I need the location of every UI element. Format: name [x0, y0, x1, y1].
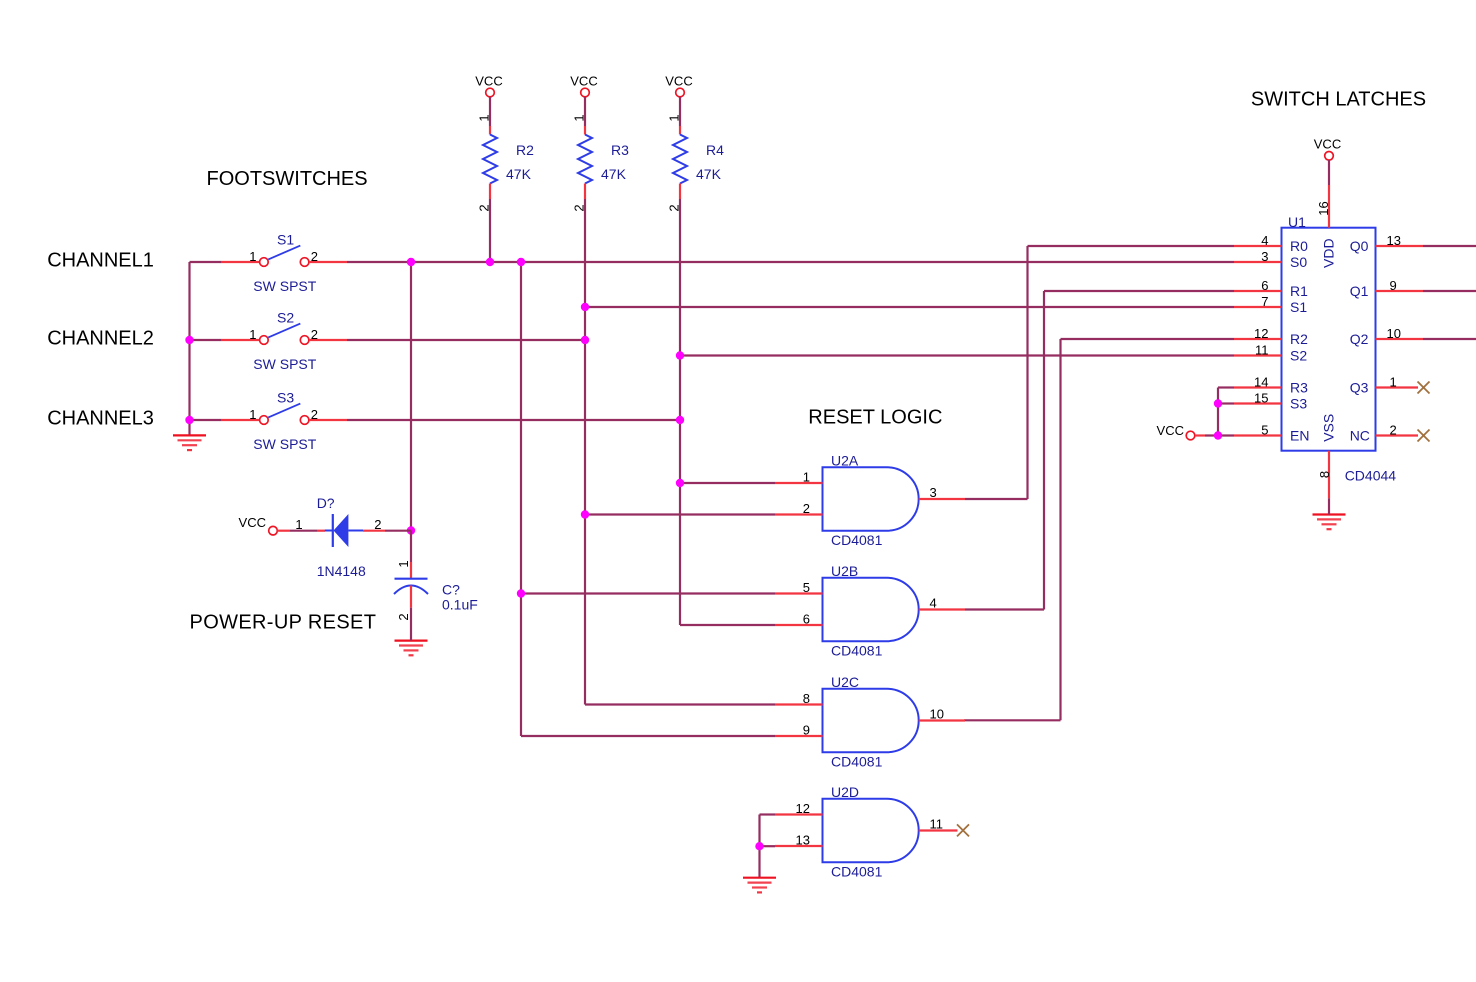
svg-text:1: 1 [572, 114, 587, 121]
wire diode anode [277, 530, 290, 532]
svg-text:47K: 47K [601, 166, 627, 182]
svg-text:9: 9 [803, 723, 810, 738]
wire to U2D pin12 [760, 813, 776, 815]
wire U2A out [965, 498, 1028, 500]
svg-text:10: 10 [1387, 326, 1401, 341]
svg-text:C?: C? [442, 582, 460, 598]
svg-text:0.1uF: 0.1uF [442, 597, 478, 613]
svg-text:1: 1 [249, 407, 256, 422]
wire U2C out column [1059, 339, 1061, 720]
wire EN row [1205, 434, 1234, 436]
wire channel3 bus [347, 419, 680, 421]
svg-text:1: 1 [803, 470, 810, 485]
wire Q0 out [1423, 245, 1476, 247]
svg-text:VDD: VDD [1321, 238, 1337, 268]
wire U2B out column [1043, 291, 1045, 610]
wire S2 row to U1 pin11 [680, 354, 1234, 356]
junction (1218,403.5) [1214, 399, 1222, 407]
svg-text:10: 10 [930, 707, 944, 722]
U1 pin 9 Q1 [1376, 290, 1424, 292]
wire U2D input tie [758, 815, 760, 878]
svg-text:R3: R3 [611, 142, 629, 158]
junction (680,483) [676, 479, 684, 487]
ground U1 pin8 [1313, 515, 1346, 530]
wire to U2B pin5 [521, 592, 775, 594]
U1 pin 7 S1 [1234, 306, 1282, 308]
svg-text:47K: 47K [506, 166, 532, 182]
svg-text:2: 2 [667, 204, 682, 211]
U1 pin 14 R3 [1234, 386, 1282, 388]
svg-text:R4: R4 [706, 142, 724, 158]
svg-text:1: 1 [249, 249, 256, 264]
junction (189.5,340) [185, 336, 193, 344]
svg-text:5: 5 [1261, 423, 1268, 438]
svg-text:15: 15 [1254, 391, 1268, 406]
wire to U2C pin8 [585, 703, 775, 705]
svg-text:R0: R0 [1290, 238, 1308, 254]
svg-text:Q1: Q1 [1350, 283, 1369, 299]
svg-text:U2A: U2A [831, 452, 859, 468]
svg-text:9: 9 [1390, 278, 1397, 293]
wire channel2 bus [347, 339, 585, 341]
svg-text:R2: R2 [516, 142, 534, 158]
and-gate U2A [823, 467, 919, 530]
junction (585,307) [581, 303, 589, 311]
wire U2C out [964, 719, 1061, 721]
svg-text:S3: S3 [1290, 396, 1307, 412]
svg-text:R3: R3 [1290, 380, 1308, 396]
svg-text:11: 11 [1255, 343, 1269, 358]
svg-text:14: 14 [1254, 375, 1268, 390]
wire channel3 left [190, 419, 222, 421]
no-connect Q3 [1418, 382, 1430, 394]
U1 pin 1 Q3 [1376, 386, 1419, 388]
wire diode cathode [363, 530, 385, 532]
and-gate U2C [823, 689, 919, 752]
svg-text:S1: S1 [277, 232, 294, 248]
svg-text:VCC: VCC [665, 74, 692, 89]
wire R2 bottom [489, 199, 491, 262]
svg-text:12: 12 [1254, 326, 1268, 341]
svg-text:2: 2 [311, 249, 318, 264]
svg-text:SW SPST: SW SPST [253, 278, 316, 294]
svg-text:CD4081: CD4081 [831, 754, 883, 770]
svg-text:SWITCH LATCHES: SWITCH LATCHES [1251, 89, 1426, 111]
wire R2 row to U1 pin12 [1061, 338, 1235, 340]
wire VCC tie column [1217, 388, 1219, 436]
svg-text:2: 2 [311, 327, 318, 342]
ground capacitor [395, 641, 428, 656]
svg-text:6: 6 [803, 612, 810, 627]
wire column x411 [410, 262, 412, 531]
svg-text:1N4148: 1N4148 [317, 563, 366, 579]
wire to U2B pin6 [680, 624, 775, 626]
svg-text:S2: S2 [277, 310, 294, 326]
wire channel1 left [190, 261, 222, 263]
svg-text:CHANNEL2: CHANNEL2 [47, 328, 154, 350]
wire S1 row to U1 pin7 [585, 306, 1234, 308]
svg-text:11: 11 [930, 817, 944, 832]
svg-text:SW SPST: SW SPST [253, 436, 316, 452]
svg-text:NC: NC [1350, 428, 1370, 444]
switch S2 [222, 339, 260, 341]
svg-text:2: 2 [374, 517, 381, 532]
svg-text:D?: D? [317, 495, 335, 511]
junction (585,514.5) [581, 510, 589, 518]
svg-text:VCC: VCC [570, 74, 597, 89]
and-gate U2B [823, 578, 919, 641]
wire S3 jog [1218, 402, 1234, 404]
svg-text:RESET LOGIC: RESET LOGIC [808, 407, 942, 429]
svg-text:2: 2 [311, 407, 318, 422]
wire R0 row to U1 pin4 [1028, 245, 1235, 247]
wire R3 jog [1218, 386, 1234, 388]
U1 pin 11 S2 [1234, 354, 1282, 356]
wire cap bottom [410, 586, 412, 608]
wire to U2A pin2 [585, 513, 775, 515]
svg-text:4: 4 [930, 596, 937, 611]
svg-text:R1: R1 [1290, 283, 1308, 299]
U1 pin 12 R2 [1234, 338, 1282, 340]
wire column x680 [679, 199, 681, 625]
junction (411,262) [407, 258, 415, 266]
wire left rail [188, 262, 190, 435]
svg-text:VCC: VCC [239, 515, 266, 530]
wire U2B out [965, 608, 1044, 610]
wire U2A out column [1026, 246, 1028, 499]
svg-text:S2: S2 [1290, 348, 1307, 364]
svg-text:1: 1 [249, 327, 256, 342]
svg-text:8: 8 [803, 691, 810, 706]
svg-text:S3: S3 [277, 390, 294, 406]
no-connect NC [1418, 430, 1430, 442]
svg-text:13: 13 [796, 833, 810, 848]
svg-text:3: 3 [1261, 249, 1268, 264]
U1 pin16 wire [1328, 160, 1330, 185]
svg-text:U1: U1 [1288, 214, 1306, 230]
svg-text:CHANNEL1: CHANNEL1 [47, 250, 154, 272]
junction (189.5,420) [185, 416, 193, 424]
wire channel2 left [190, 339, 222, 341]
svg-text:3: 3 [930, 485, 937, 500]
U1 pin 15 S3 [1234, 402, 1282, 404]
svg-text:Q2: Q2 [1350, 331, 1369, 347]
svg-text:U2D: U2D [831, 784, 859, 800]
U1 pin 10 Q2 [1376, 338, 1424, 340]
svg-text:8: 8 [1317, 471, 1332, 478]
wire to U2A pin1 [680, 482, 775, 484]
U1 pin 2 NC [1376, 434, 1419, 436]
junction (680,420) [676, 416, 684, 424]
U1 pin 4 R0 [1234, 245, 1282, 247]
svg-text:FOOTSWITCHES: FOOTSWITCHES [207, 168, 368, 190]
switch S3 [222, 419, 260, 421]
svg-text:CD4081: CD4081 [831, 643, 883, 659]
U1 pin 6 R1 [1234, 290, 1282, 292]
junction (585,340) [581, 336, 589, 344]
svg-text:7: 7 [1261, 294, 1268, 309]
junction (680,355.5) [676, 351, 684, 359]
svg-text:12: 12 [796, 801, 810, 816]
svg-text:1: 1 [396, 560, 411, 567]
svg-text:1: 1 [667, 114, 682, 121]
diode D1 symbol [332, 514, 334, 547]
wire cap top [410, 531, 412, 563]
svg-text:EN: EN [1290, 428, 1309, 444]
svg-text:S0: S0 [1290, 254, 1307, 270]
wire column x585 [584, 199, 586, 705]
svg-text:13: 13 [1387, 233, 1401, 248]
wire column x521 [520, 262, 522, 736]
U1 pin 3 S0 [1234, 261, 1282, 263]
wire R1 row to U1 pin6 [1044, 290, 1234, 292]
svg-text:CHANNEL3: CHANNEL3 [47, 407, 154, 429]
svg-text:2: 2 [803, 501, 810, 516]
svg-text:CD4044: CD4044 [1345, 468, 1397, 484]
svg-text:2: 2 [1390, 423, 1397, 438]
wire to U2D pin13 [760, 845, 776, 847]
svg-text:R2: R2 [1290, 331, 1308, 347]
svg-text:47K: 47K [696, 166, 722, 182]
svg-text:POWER-UP RESET: POWER-UP RESET [190, 612, 377, 634]
svg-text:VCC: VCC [475, 74, 502, 89]
svg-text:Q3: Q3 [1350, 380, 1369, 396]
capacitor C? symbol [395, 578, 428, 580]
svg-text:U2C: U2C [831, 674, 859, 690]
svg-text:2: 2 [477, 204, 492, 211]
svg-text:VCC: VCC [1314, 137, 1341, 152]
wire Q2 out [1423, 338, 1476, 340]
svg-text:16: 16 [1316, 201, 1331, 215]
svg-text:U2B: U2B [831, 563, 858, 579]
U1 pin8 wire [1328, 451, 1330, 499]
svg-text:S1: S1 [1290, 299, 1307, 315]
switch S1 [222, 261, 260, 263]
junction (490,262) [486, 258, 494, 266]
svg-text:VSS: VSS [1321, 414, 1337, 442]
junction (1218,435.5) [1214, 431, 1222, 439]
svg-text:1: 1 [477, 114, 492, 121]
svg-text:VCC: VCC [1157, 423, 1184, 438]
ground left rail [173, 435, 206, 450]
svg-text:2: 2 [396, 613, 411, 620]
junction (521,262) [517, 258, 525, 266]
ground U2D [743, 878, 776, 893]
U1 pin 13 Q0 [1376, 245, 1424, 247]
U1 body [1282, 228, 1376, 451]
junction (759.5,846.2) [755, 842, 763, 850]
wire Q1 out [1423, 290, 1476, 292]
svg-text:Q0: Q0 [1350, 238, 1369, 254]
junction (521,593.5) [517, 589, 525, 597]
svg-text:1: 1 [295, 517, 302, 532]
wire channel1 bus to U1 S0 [347, 261, 1234, 263]
no-connect U2D out [957, 824, 969, 836]
and-gate U2D [823, 799, 919, 862]
svg-text:CD4081: CD4081 [831, 864, 883, 880]
svg-text:2: 2 [572, 204, 587, 211]
svg-text:SW SPST: SW SPST [253, 356, 316, 372]
svg-text:1: 1 [1390, 375, 1397, 390]
svg-text:CD4081: CD4081 [831, 532, 883, 548]
svg-text:4: 4 [1261, 233, 1268, 248]
junction (411,530.5) [407, 526, 415, 534]
svg-text:5: 5 [803, 580, 810, 595]
wire to U2C pin9 [521, 735, 775, 737]
U1 pin 5 EN [1234, 434, 1282, 436]
svg-text:6: 6 [1261, 278, 1268, 293]
